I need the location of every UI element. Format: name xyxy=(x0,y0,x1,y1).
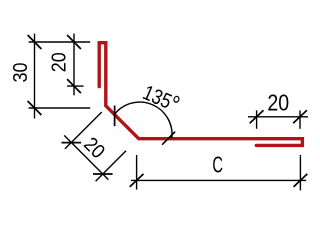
tick slant upper xyxy=(62,142,82,144)
dimension line 20 slant xyxy=(64,135,108,179)
svg-text:20: 20 xyxy=(267,90,289,116)
angle arc 135 xyxy=(115,102,172,138)
extension line top edge xyxy=(29,41,91,43)
angle tick left xyxy=(114,106,116,127)
tick C right xyxy=(294,174,308,187)
tick slant lower xyxy=(93,173,113,175)
extension line bend level xyxy=(29,107,91,109)
dimension line 20 right xyxy=(248,116,308,118)
tick 20 top xyxy=(67,35,81,49)
tick 20 bottom xyxy=(67,79,81,93)
extension line C left xyxy=(136,155,138,190)
tick 30 top xyxy=(28,35,42,49)
extension line hem20 right xyxy=(299,110,301,128)
angle tick right xyxy=(162,132,175,145)
svg-text:30: 30 xyxy=(10,62,32,82)
extension line hem bottom xyxy=(67,85,84,87)
svg-text:135°: 135° xyxy=(138,79,184,121)
dimension line 30 xyxy=(34,34,36,119)
tick right20 right xyxy=(293,110,307,123)
profile P1 (red flashing outline) xyxy=(99,43,302,146)
extension line hem20 left xyxy=(256,110,258,128)
tick right20 left xyxy=(250,110,264,123)
extension line C right xyxy=(299,155,301,190)
extension line slant upper xyxy=(65,112,102,149)
dimension line 20 vertical xyxy=(73,34,75,96)
svg-text:20: 20 xyxy=(79,134,109,164)
dimension line C xyxy=(131,179,306,181)
svg-text:C: C xyxy=(212,153,223,178)
extension line slant lower xyxy=(96,151,126,181)
tick C left xyxy=(130,174,144,187)
tick 30 bottom xyxy=(28,101,42,115)
svg-text:20: 20 xyxy=(49,52,71,72)
